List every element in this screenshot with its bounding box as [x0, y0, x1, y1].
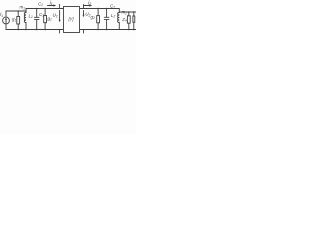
- junction dots: [17, 8, 134, 31]
- svg-text:m1: m1: [20, 5, 26, 11]
- svg-text:g1: g1: [48, 16, 52, 22]
- resistor g1: [17, 11, 20, 30]
- resistor Zn: [127, 12, 130, 30]
- port tick bottom-left of box: [59, 30, 61, 34]
- wire top-left rail: [6, 10, 26, 12]
- resistor g22: [97, 9, 100, 30]
- svg-text:m2: m2: [122, 10, 128, 16]
- svg-text:Zн: Zн: [121, 17, 127, 23]
- svg-text:C1: C1: [38, 1, 43, 7]
- port tick top-right of box: [83, 5, 85, 9]
- junction (36.7,8.5): [36, 8, 38, 10]
- junction (98.1,29.5): [97, 29, 99, 31]
- capacitor C2: [104, 9, 109, 30]
- port tick bottom-right of box: [83, 30, 85, 34]
- junction (106.6,8.5): [106, 8, 108, 10]
- junction (45.1,29.5): [44, 29, 46, 31]
- wire top rail right of box: [80, 8, 120, 10]
- wire step left: [25, 9, 27, 13]
- two-port box U: [64, 7, 80, 33]
- junction (18.2,11): [17, 10, 19, 12]
- wire bottom rail: [6, 29, 136, 31]
- svg-text:g1: g1: [12, 17, 16, 23]
- junction (26,29.5): [25, 29, 27, 31]
- current arrow I2: [84, 4, 93, 6]
- junction (128.8,29.5): [128, 29, 130, 31]
- junction (18.2,29.5): [17, 29, 19, 31]
- junction (106.6,29.5): [106, 29, 108, 31]
- svg-text:C2: C2: [110, 4, 115, 10]
- junction (25.9,11.2): [25, 11, 26, 12]
- voltage arrow U2: [83, 11, 85, 18]
- resistor at right edge (clipped): [133, 12, 135, 30]
- svg-text:C1: C1: [39, 12, 44, 18]
- wire step right: [118, 9, 120, 13]
- inductor L2: [118, 13, 120, 30]
- junction (128.8,12): [128, 11, 130, 13]
- svg-text:L1: L1: [29, 13, 33, 19]
- wire main top rail: [26, 8, 64, 10]
- voltage arrow U1: [59, 11, 61, 23]
- svg-text:L2: L2: [111, 13, 115, 19]
- junction (133.8,29.5): [133, 29, 135, 31]
- svg-text:U1: U1: [53, 13, 58, 19]
- svg-text:[У]: [У]: [68, 17, 75, 22]
- capacitor C1: [34, 9, 39, 30]
- port tick top-left of box: [59, 5, 61, 9]
- junction (133.8,12): [133, 11, 134, 12]
- current source I1: [3, 11, 10, 30]
- junction (98.1,8.5): [97, 8, 99, 10]
- junction (45.1,8.5): [44, 8, 46, 10]
- junction (36.7,29.5): [36, 29, 38, 31]
- current arrow I1: [48, 4, 57, 6]
- inductor L1: [24, 13, 26, 30]
- svg-text:g2: g2: [91, 14, 95, 20]
- resistor g11: [44, 9, 47, 30]
- wire right rail: [119, 11, 136, 13]
